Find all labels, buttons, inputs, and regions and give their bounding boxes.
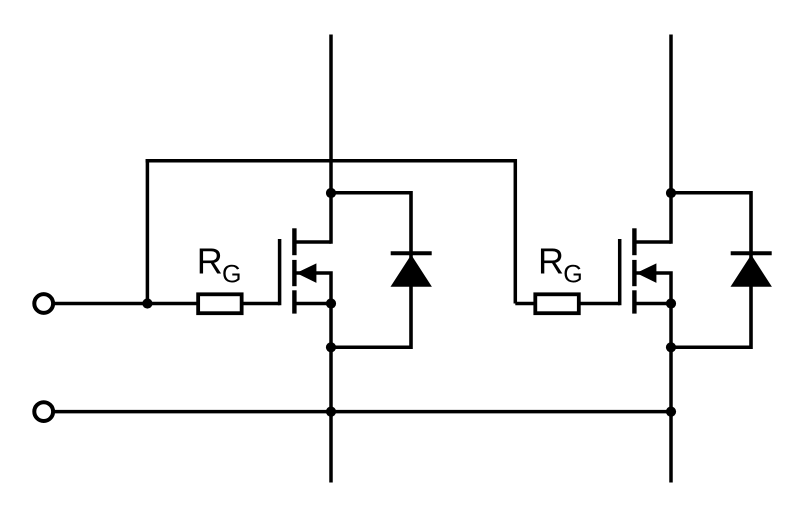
node: Q1 source junction (326, 298, 336, 308)
node: Q1 drain-diode junction (326, 188, 336, 198)
svg-text:G: G (563, 260, 582, 288)
diode D1 triangle (391, 255, 432, 287)
node: Q2 source junction (666, 298, 676, 308)
node: rail 2 to bus junction (666, 407, 676, 417)
wire: corner to RG2 (515, 302, 536, 306)
transistor Q1 body arrow (296, 263, 316, 283)
wire: top feed down to RG2 (514, 159, 518, 303)
transistor Q1 channel segment middle (292, 260, 296, 286)
wire: drain rail 1 (upper vertical) (329, 35, 333, 244)
transistor Q1 channel segment bottom (292, 290, 296, 313)
transistor Q2 body arrow (636, 263, 656, 283)
transistor Q2 channel segment middle (632, 260, 636, 286)
node: rail 1 to bus junction (326, 407, 336, 417)
wire: bottom bus (55, 410, 671, 414)
wire: source rail 1 (lower vertical) (329, 304, 333, 483)
transistor Q1 channel segment top (292, 228, 296, 255)
node: D1 anode junction (326, 342, 336, 352)
svg-text:R: R (197, 240, 223, 281)
wire: D1 vertical (409, 191, 413, 349)
resistor RG1 (198, 294, 242, 313)
wire: Q1 source link (294, 302, 331, 306)
wire: D1 top branch (331, 191, 411, 195)
wire: RG1 to gate of Q1 (243, 302, 280, 306)
svg-text:R: R (538, 240, 564, 281)
wire: source rail 2 (lower vertical) (669, 304, 673, 483)
wire: drain rail 2 (upper vertical) (669, 35, 673, 244)
wire: Q2 source link (634, 302, 671, 306)
wire: Q2 drain link (634, 240, 671, 244)
terminal gate input (top-left circle) (34, 294, 53, 313)
terminal source/return (bottom-left circle) (34, 402, 53, 421)
wire: Q1 body link (296, 273, 331, 304)
diode D2 cathode bar (731, 251, 772, 255)
wire: top gate feed horizontal (146, 159, 517, 163)
wire: Q1 drain link (294, 240, 331, 244)
resistor RG2 (535, 294, 579, 313)
diode D2 triangle (731, 255, 772, 287)
label RG2 (538, 240, 583, 288)
wire: D2 bottom branch (671, 346, 751, 350)
node: D2 anode junction (666, 342, 676, 352)
node: Q2 drain-diode junction (666, 188, 676, 198)
label RG1 (197, 240, 242, 288)
svg-text:G: G (222, 260, 241, 288)
transistor Q2 channel segment top (632, 228, 636, 255)
wire: D1 bottom branch (331, 346, 411, 350)
transistor Q2 gate bar (618, 239, 622, 305)
wire: RG2 to gate of Q2 (580, 302, 620, 306)
wire: D2 top branch (671, 191, 751, 195)
transistor Q1 gate bar (278, 239, 282, 305)
wire: node A up to top feed (146, 159, 150, 305)
wire: D2 vertical (749, 191, 753, 349)
wire: Q2 body link (636, 273, 671, 304)
transistor Q2 channel segment bottom (632, 290, 636, 313)
node A (gate input junction) (142, 298, 152, 308)
wire: node A to RG1 (147, 302, 197, 306)
diode D1 cathode bar (391, 251, 432, 255)
wire: input terminal to node A (55, 302, 147, 306)
